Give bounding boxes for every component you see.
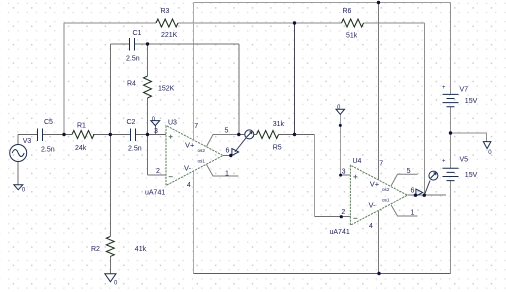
svg-text:os2: os2 xyxy=(382,187,390,192)
svg-text:C5: C5 xyxy=(44,119,53,126)
svg-text:31k: 31k xyxy=(273,121,285,128)
svg-text:V+: V+ xyxy=(370,180,380,189)
svg-text:+: + xyxy=(442,159,446,165)
svg-text:7: 7 xyxy=(379,160,383,167)
svg-text:V+: V+ xyxy=(185,141,195,150)
svg-text:6: 6 xyxy=(226,148,230,155)
svg-text:152K: 152K xyxy=(158,86,175,93)
svg-text:15V: 15V xyxy=(465,172,478,179)
svg-text:C2: C2 xyxy=(127,119,136,126)
svg-text:7: 7 xyxy=(194,123,198,130)
svg-text:1: 1 xyxy=(411,210,415,217)
svg-text:V3: V3 xyxy=(23,138,32,145)
svg-text:3: 3 xyxy=(342,168,346,175)
svg-text:V-: V- xyxy=(184,164,192,173)
svg-text:6: 6 xyxy=(411,188,415,195)
svg-text:R3: R3 xyxy=(161,8,170,15)
svg-text:V7: V7 xyxy=(460,87,469,94)
svg-text:R1: R1 xyxy=(77,123,86,130)
svg-text:221K: 221K xyxy=(161,32,178,39)
svg-text:R2: R2 xyxy=(91,246,100,253)
svg-text:0: 0 xyxy=(22,187,26,193)
svg-text:41k: 41k xyxy=(135,246,147,253)
svg-text:R4: R4 xyxy=(127,81,136,88)
svg-text:V5: V5 xyxy=(460,157,469,164)
svg-text:2.5n: 2.5n xyxy=(128,146,142,153)
svg-text:0: 0 xyxy=(114,281,118,287)
svg-text:15V: 15V xyxy=(465,98,478,105)
svg-text:2.5n: 2.5n xyxy=(41,147,55,154)
svg-text:os1: os1 xyxy=(198,159,206,164)
svg-text:+: + xyxy=(442,85,446,91)
svg-text:uA741: uA741 xyxy=(330,229,350,236)
svg-text:uA741: uA741 xyxy=(145,190,165,197)
svg-text:R6: R6 xyxy=(343,8,352,15)
svg-text:0: 0 xyxy=(488,150,492,156)
svg-text:2: 2 xyxy=(156,168,160,175)
svg-text:4: 4 xyxy=(187,182,191,189)
svg-text:5: 5 xyxy=(407,168,411,175)
svg-text:0: 0 xyxy=(337,105,341,111)
svg-text:U3: U3 xyxy=(168,120,177,127)
svg-text:V-: V- xyxy=(369,201,377,210)
svg-text:5: 5 xyxy=(225,128,229,135)
svg-text:4: 4 xyxy=(369,223,373,230)
svg-text:C1: C1 xyxy=(133,30,142,37)
svg-text:24k: 24k xyxy=(75,145,87,152)
svg-text:R5: R5 xyxy=(273,145,282,152)
svg-text:1: 1 xyxy=(225,171,229,178)
svg-text:os1: os1 xyxy=(382,197,390,202)
svg-text:2.5n: 2.5n xyxy=(126,56,140,63)
svg-text:3: 3 xyxy=(154,128,158,135)
svg-text:U4: U4 xyxy=(353,158,362,165)
svg-text:2: 2 xyxy=(341,209,345,216)
svg-text:51k: 51k xyxy=(346,33,358,40)
svg-text:os2: os2 xyxy=(198,148,206,153)
svg-text:0: 0 xyxy=(152,117,156,123)
